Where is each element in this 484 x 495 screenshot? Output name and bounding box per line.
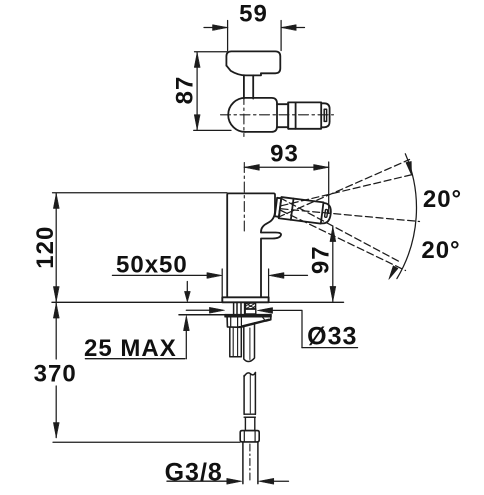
barrel divider	[295, 102, 297, 128]
tube divider	[291, 199, 294, 220]
swivel dashed line middle	[281, 209, 420, 222]
connection nut	[240, 431, 259, 442]
handle wedge base	[226, 66, 261, 76]
dim 93 right extension	[328, 162, 330, 214]
svg-text:87: 87	[172, 76, 199, 105]
pipe break lower start	[244, 373, 255, 377]
dim 93 arrows	[244, 164, 259, 170]
dim 120 line	[55, 193, 57, 301]
spout socket	[275, 198, 281, 217]
swivel dashed line lower edge	[280, 198, 401, 263]
body centerline (front view)	[243, 163, 245, 232]
svg-text:370: 370	[34, 361, 77, 388]
horseshoe bracket	[227, 317, 271, 327]
svg-text:Ø33: Ø33	[307, 323, 357, 351]
svg-text:20°: 20°	[421, 237, 460, 264]
50x50 underline and arrow	[112, 274, 208, 276]
dim 87 arrows	[194, 52, 200, 67]
swivel dashed line upper center	[281, 175, 413, 206]
dim 59 arrows	[213, 25, 228, 31]
nut lower block	[245, 309, 256, 314]
dim 87 extension lines	[194, 52, 231, 131]
dim 370 extension line	[53, 441, 240, 443]
arc arrow top	[406, 161, 412, 175]
50x50 right arrow	[284, 274, 308, 276]
pipe collar	[244, 414, 255, 417]
bracket inner lines	[231, 317, 271, 327]
counter line right	[269, 301, 344, 303]
25 MAX underline	[85, 358, 184, 360]
bracket top plate	[179, 314, 256, 316]
spout end cap (top view)	[321, 103, 329, 127]
dim 97 arrows	[330, 227, 336, 242]
dim 97 line	[332, 227, 334, 302]
base flange	[222, 297, 268, 302]
dim 370 arrows	[53, 303, 59, 318]
spout assembly (front view, tilted)	[275, 197, 332, 225]
spout cap	[321, 203, 332, 224]
G3/8 right arrow	[274, 480, 289, 482]
lever neck (top view)	[244, 75, 253, 98]
cap slot (top view)	[324, 109, 326, 121]
svg-text:120: 120	[32, 226, 59, 269]
threaded stud	[230, 327, 242, 357]
25 MAX up arrow	[183, 316, 189, 331]
body (top view)	[228, 98, 277, 132]
centerline horizontal (top view)	[221, 114, 334, 116]
Ø33 underline	[302, 347, 358, 349]
spout neck (top view)	[277, 102, 288, 128]
handle knob (top view)	[226, 51, 280, 73]
svg-text:97: 97	[307, 245, 334, 274]
25 MAX vertical leader	[185, 330, 187, 359]
supply pipe end	[243, 442, 258, 484]
swivel dashed line lower center	[281, 211, 406, 271]
handle blade (front view)	[261, 233, 281, 298]
centerline vertical (top view)	[243, 95, 245, 137]
arc arrow bottom	[389, 266, 398, 280]
svg-text:25 MAX: 25 MAX	[84, 335, 177, 362]
swivel arc	[397, 154, 417, 279]
counter line left	[52, 301, 222, 303]
svg-text:59: 59	[239, 1, 268, 28]
tailpiece pipe	[244, 323, 255, 362]
lower supply pipe	[244, 373, 255, 415]
hatched nut	[246, 303, 256, 309]
dim 120 extension line	[53, 192, 228, 194]
svg-text:50x50: 50x50	[116, 251, 188, 278]
dim 120 arrows	[53, 193, 59, 208]
50x50 extension lines	[222, 269, 268, 302]
svg-text:20°: 20°	[423, 186, 462, 213]
pipe end centerline	[249, 444, 251, 482]
dim 93 line	[244, 166, 328, 168]
Ø33 elbow	[273, 310, 302, 347]
dim 59 line	[204, 27, 305, 29]
dim 87 line	[196, 52, 198, 129]
body (front view)	[227, 193, 275, 297]
spout tube	[279, 197, 324, 224]
Ø33 arrow	[258, 308, 273, 314]
cap slot	[325, 209, 328, 217]
swivel dashed line upper edge	[278, 160, 410, 218]
G3/8 underline and arrow	[167, 480, 228, 482]
25 MAX down arrow	[186, 282, 188, 293]
25 MAX side arrow	[186, 309, 210, 311]
shank tube lines	[234, 302, 245, 314]
dim 59 extension lines	[228, 21, 282, 51]
dim 370 line	[55, 303, 57, 438]
svg-text:G3/8: G3/8	[165, 459, 223, 487]
spout barrel (top view)	[288, 102, 321, 128]
svg-text:93: 93	[270, 140, 299, 167]
